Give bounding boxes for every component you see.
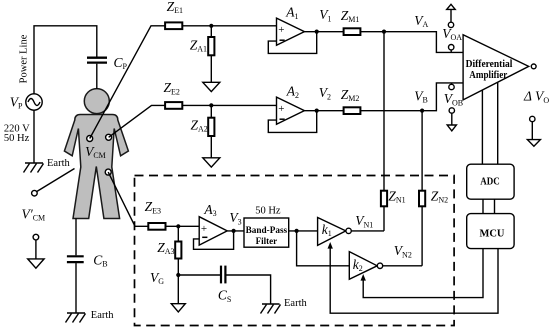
- wire: junction to ZA2: [210, 105, 212, 117]
- wire: amp to ADC 2: [497, 82, 499, 164]
- node A3 out: [232, 229, 236, 233]
- vertical wire VB to ZN2: [421, 111, 423, 191]
- wire: A2 feedback: [268, 111, 316, 133]
- buffer k1: [318, 218, 352, 246]
- vertical wire VA to ZN1: [383, 32, 385, 191]
- electrode hip: [105, 169, 111, 175]
- op-amp A3: [199, 217, 227, 245]
- wire: MCU return to k2: [363, 249, 483, 298]
- earth ground 2: [66, 313, 86, 323]
- resistor ZA3: [175, 242, 181, 259]
- differential amplifier: [463, 35, 529, 100]
- wire: VG to ground: [177, 275, 179, 304]
- wire: ZM1 to diff amp upper input: [360, 32, 463, 53]
- wire: ZA1 to ground: [210, 55, 212, 82]
- wire ZN2 to VN2: [421, 206, 423, 265]
- svg-text:ADC: ADC: [480, 176, 500, 187]
- wire: A1 output: [304, 31, 343, 33]
- node A2 out: [315, 109, 319, 113]
- wire: leg to CB: [75, 219, 77, 256]
- electrode left chest: [87, 136, 93, 142]
- resistor ZA2: [208, 118, 214, 136]
- ground triangle (ZA2): [203, 158, 220, 167]
- source VP: [26, 94, 42, 110]
- MCU block: [467, 214, 514, 249]
- wire: A2 output: [304, 110, 343, 112]
- resistor ZN2: [419, 191, 425, 207]
- buffer k2: [349, 252, 382, 280]
- capacitor CS: [221, 266, 225, 284]
- wire: VP to earth: [33, 110, 35, 163]
- node VB: [420, 109, 424, 113]
- arrowhead into k2: [361, 274, 366, 281]
- svg-text:Earth: Earth: [47, 158, 70, 169]
- wire: ZM2 to diff amp lower input: [360, 83, 463, 111]
- wire: junction to ZA1: [210, 26, 212, 37]
- svg-text:+: +: [278, 103, 284, 115]
- svg-text:Filter: Filter: [256, 236, 278, 246]
- wire: CB to earth: [75, 263, 77, 313]
- svg-text:Earth: Earth: [284, 298, 307, 309]
- op-amp A2: [277, 97, 305, 124]
- svg-text:Amplifier: Amplifier: [469, 70, 508, 81]
- electrode right chest: [106, 134, 112, 140]
- head: [84, 89, 109, 114]
- wire: BPF to k1: [289, 230, 318, 232]
- svg-text:Differential: Differential: [466, 59, 513, 70]
- svg-text:Power Line: Power Line: [19, 34, 30, 83]
- wires ADC to MCU: [483, 199, 495, 213]
- wire: k1 out to ZN1: [351, 230, 384, 232]
- earth ground 3: [261, 304, 281, 314]
- test point VOB: [447, 83, 456, 131]
- node junction ZA3: [176, 224, 180, 228]
- output ground reference: [527, 116, 540, 146]
- ADC block: [467, 164, 514, 199]
- node BPF out: [295, 229, 299, 233]
- node VG: [176, 273, 180, 277]
- wire: Cp bottom to head: [96, 64, 98, 89]
- wire: A1 feedback: [268, 32, 316, 54]
- svg-text:Band-Pass: Band-Pass: [246, 225, 288, 235]
- node junction ZA2: [209, 103, 213, 107]
- wire: V'CM to body: [37, 169, 75, 192]
- wire ZN1 to VN1: [383, 206, 385, 231]
- output terminal: [531, 64, 536, 69]
- ground triangle (ZA1): [203, 82, 220, 91]
- wire: A3 output: [227, 230, 244, 232]
- svg-text:+: +: [278, 24, 284, 36]
- op-amp A1: [277, 18, 305, 45]
- wire: ZE2 to A2: [182, 104, 276, 106]
- resistor ZM2: [344, 107, 361, 114]
- band-pass filter block: [244, 218, 289, 247]
- svg-text:50 Hz: 50 Hz: [4, 133, 30, 144]
- svg-text:+: +: [201, 223, 207, 235]
- wire: ZA2 to ground: [210, 136, 212, 158]
- wire: branch to k2: [297, 231, 350, 266]
- wire: amp to ADC: [481, 90, 483, 164]
- svg-text:MCU: MCU: [480, 228, 505, 239]
- wire: ZE1 to A1: [182, 25, 276, 27]
- wire: CS to earth: [226, 275, 270, 304]
- wire: hip electrode to ZE3: [108, 172, 148, 226]
- wire: MCU return to k1: [330, 248, 498, 313]
- body silhouette: [64, 89, 128, 219]
- node VA: [382, 30, 386, 34]
- svg-text:50 Hz: 50 Hz: [255, 205, 281, 216]
- arrowhead into k1: [328, 242, 333, 249]
- resistor ZA1: [208, 37, 214, 55]
- wire: ZE3 to A3: [166, 225, 200, 227]
- test point VOA: [447, 4, 456, 52]
- ground triangle (VG): [171, 304, 185, 312]
- resistor ZE2: [165, 102, 182, 109]
- resistor ZE1: [165, 22, 182, 29]
- node A1 out: [315, 30, 319, 34]
- wire: junction to ZA3: [177, 226, 179, 241]
- dashed DRL box: [135, 176, 455, 326]
- wire: Vp top loop to Cp: [34, 26, 97, 94]
- wire: k2 out to ZN2: [383, 265, 422, 267]
- capacitor CP: [87, 58, 107, 63]
- earth ground 1: [24, 163, 44, 173]
- wire: electrode to ZE2: [109, 105, 166, 137]
- resistor ZN1: [381, 191, 387, 207]
- node V'CM terminal: [32, 190, 38, 196]
- V'CM ground reference: [28, 234, 44, 268]
- resistor ZM1: [344, 28, 361, 35]
- wire: VG to CS: [178, 274, 220, 276]
- svg-text:Earth: Earth: [91, 310, 114, 321]
- node junction ZA1: [209, 24, 213, 28]
- wire: ZA3 to VG: [177, 259, 179, 276]
- resistor ZE3: [148, 223, 165, 230]
- wire: electrode to ZE1: [90, 26, 165, 139]
- capacitor CB: [67, 256, 84, 262]
- wire: A3 feedback: [194, 231, 234, 249]
